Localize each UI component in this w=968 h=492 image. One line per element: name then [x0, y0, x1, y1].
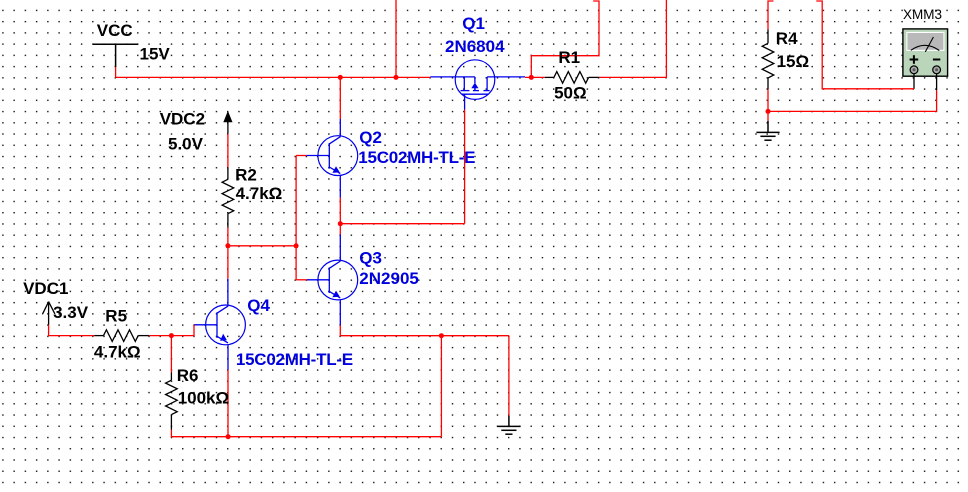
svg-text:2N2905: 2N2905	[359, 269, 419, 288]
node base chain	[294, 243, 299, 248]
svg-text:Q2: Q2	[359, 128, 382, 147]
wire Q2 emitter	[339, 176, 341, 198]
pin XMM3 minus	[936, 74, 938, 91]
wire Q1 drain to R1	[525, 76, 545, 78]
node ground-R4-meter	[766, 109, 771, 114]
resistor R1	[545, 72, 600, 84]
wire VCC rail	[116, 76, 431, 78]
transistor Q3	[307, 260, 358, 300]
resistor R2	[222, 167, 234, 227]
wire Q4 collector	[227, 246, 229, 279]
wire meter minus	[768, 90, 937, 111]
ground right	[756, 121, 779, 140]
svg-text:5.0V: 5.0V	[168, 135, 204, 154]
wire Q4 base step	[171, 325, 194, 336]
wire meter plus	[816, 1, 914, 89]
svg-text:3.3V: 3.3V	[53, 303, 89, 322]
svg-text:4.7kΩ: 4.7kΩ	[94, 342, 141, 361]
wire Q2 base	[296, 155, 306, 157]
wire Q3 base	[296, 279, 307, 281]
svg-text:VCC: VCC	[97, 21, 133, 40]
wire R1 right up	[599, 0, 666, 77]
node Q4 emitter rail	[226, 434, 231, 439]
node R2 bottom	[225, 243, 230, 248]
svg-text:2N6804: 2N6804	[445, 37, 505, 56]
svg-text:15Ω: 15Ω	[777, 52, 810, 71]
wire Q3 emitter	[339, 300, 341, 325]
node emitter run	[439, 333, 444, 338]
wire Q3 emitter run	[340, 335, 509, 337]
source VDC1 arrow	[42, 302, 55, 325]
wire R2 node to base chain	[228, 245, 296, 247]
wire VDC2 to R2	[227, 134, 229, 168]
svg-text:50Ω: 50Ω	[554, 84, 587, 103]
svg-text:VDC1: VDC1	[23, 279, 68, 298]
resistor R4	[762, 29, 774, 89]
wire branch up from R1 left	[531, 1, 599, 77]
wire to ground center	[508, 336, 510, 416]
pin XMM3 plus	[913, 74, 915, 89]
bottom rail	[171, 436, 441, 438]
svg-text:Q1: Q1	[462, 14, 485, 33]
node rail-top	[394, 75, 399, 80]
wire R2 bottom	[227, 228, 229, 246]
wire Q2 collector	[339, 77, 341, 119]
svg-text:4.7kΩ: 4.7kΩ	[236, 184, 283, 203]
transistor Q4	[194, 305, 245, 345]
svg-text:R4: R4	[776, 29, 798, 48]
wire R4 bottom	[767, 89, 769, 121]
svg-text:R1: R1	[558, 48, 580, 67]
wire top to R4	[768, 1, 774, 29]
svg-text:Q4: Q4	[247, 296, 270, 315]
svg-text:Q3: Q3	[359, 249, 382, 268]
svg-text:R2: R2	[235, 166, 257, 185]
resistor R6	[166, 373, 178, 430]
wire top vertical into rail	[395, 0, 397, 77]
resistor R5	[94, 330, 149, 342]
node R1 left	[529, 75, 534, 80]
svg-text:XMM3: XMM3	[903, 7, 942, 22]
svg-text:15C02MH-TL-E: 15C02MH-TL-E	[236, 350, 353, 369]
wire Q3 collector	[339, 224, 341, 235]
node Q2 emitter	[338, 221, 343, 226]
svg-text:R6: R6	[177, 366, 199, 385]
power VCC	[93, 44, 138, 67]
wire base chain vertical	[295, 156, 297, 280]
ground center	[497, 416, 520, 435]
svg-text:15C02MH-TL-E: 15C02MH-TL-E	[358, 148, 475, 167]
wire R5 to node	[149, 335, 171, 337]
svg-text:100kΩ: 100kΩ	[178, 389, 229, 408]
svg-text:15V: 15V	[140, 44, 171, 63]
wire emitter node to Q1 source	[340, 223, 464, 225]
wire node to bottom rail	[440, 336, 442, 437]
wire VDC1 to R5	[49, 325, 95, 336]
wire R6 bottom	[170, 430, 172, 438]
node rail-Q2	[338, 75, 343, 80]
wire VCC stub	[115, 67, 117, 77]
wire node to R6	[170, 336, 172, 373]
svg-text:R5: R5	[105, 306, 127, 325]
transistor Q2	[306, 136, 357, 176]
transistor Q1	[430, 60, 525, 110]
node R5 R6 base	[169, 333, 174, 338]
source VDC2 arrow	[223, 111, 232, 122]
svg-text:VDC2: VDC2	[160, 110, 205, 129]
wire Q4 emitter	[227, 345, 229, 370]
